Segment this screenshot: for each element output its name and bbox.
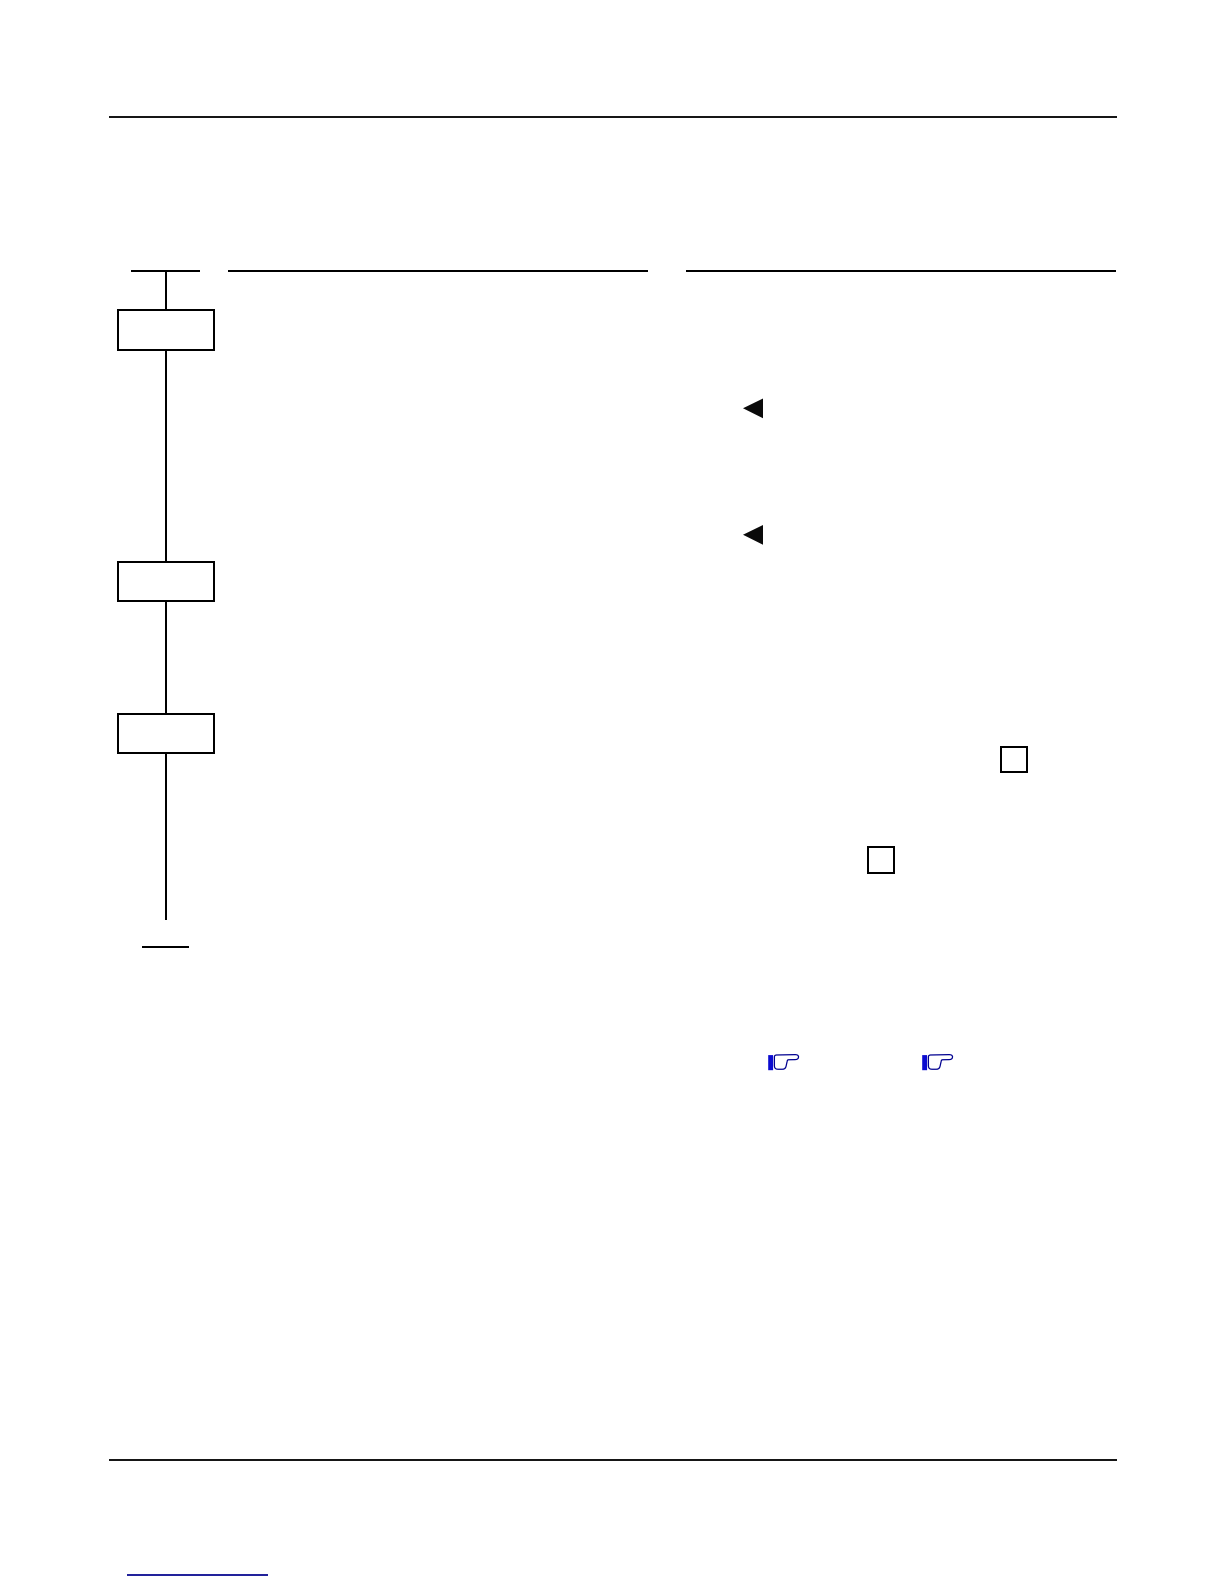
right column heading rule [686, 270, 1116, 272]
triangle bullet 1 [742, 397, 764, 420]
flowchart step box 3 [117, 713, 215, 754]
footer link underline [127, 1574, 268, 1575]
flowchart step box 1 [117, 309, 215, 351]
checkbox square 2 [867, 846, 895, 874]
left column heading rule [228, 270, 649, 272]
triangle bullet 2 [742, 524, 764, 547]
pointing hand icon 2 [922, 1053, 955, 1073]
flowchart step box 2 [117, 561, 215, 602]
flowchart start bar [131, 270, 200, 272]
flowchart vertical wire [165, 271, 167, 920]
bottom footer rule [109, 1459, 1117, 1461]
checkbox square 1 [1000, 746, 1028, 773]
flowchart end bar [142, 946, 189, 948]
top header rule [109, 116, 1117, 118]
pointing hand icon 1 [768, 1053, 801, 1073]
